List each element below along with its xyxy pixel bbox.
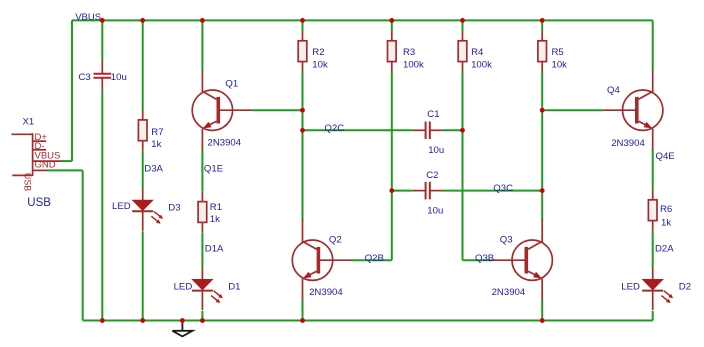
svg-text:2N3904: 2N3904 [492, 287, 526, 298]
wire R4 bottom wire [462, 71, 464, 130]
connector X1 body [12, 133, 61, 176]
svg-text:R7: R7 [151, 127, 163, 138]
wire R2 bottom wire [302, 71, 304, 110]
net label Q3C [493, 183, 513, 194]
resistor R7 [138, 110, 147, 150]
wire Q4 collector wire [652, 20, 654, 70]
value 10u of C1 [428, 145, 444, 156]
label D1 [228, 282, 240, 293]
label R3 [403, 47, 415, 58]
resistor R5 [538, 31, 547, 71]
svg-text:USB: USB [22, 173, 32, 192]
wire Q1 base net [252, 109, 302, 111]
resistor R1 [198, 192, 207, 232]
svg-text:D1A: D1A [205, 243, 224, 254]
svg-text:D2A: D2A [655, 243, 674, 254]
value 2N3904 of Q4 [611, 138, 645, 149]
label LED of D2 [621, 282, 640, 293]
svg-text:Q2B: Q2B [365, 253, 384, 264]
wire C3 bottom wire [101, 90, 103, 320]
label R6 [660, 204, 672, 215]
label C3 [78, 72, 90, 83]
label LED of D1 [174, 282, 193, 293]
LED D3 [132, 188, 163, 231]
wire net D2A [652, 230, 654, 267]
resistor R4 [458, 31, 467, 71]
label R4 [471, 47, 484, 58]
value 10u of C2 [427, 205, 443, 216]
wire R3 bottom wire [391, 71, 393, 191]
capacitor C2 [413, 182, 443, 200]
value 2N3904 of Q2 [309, 287, 343, 298]
label Q3 [500, 235, 513, 246]
junction top R7 [140, 18, 145, 23]
label D2 [679, 282, 691, 293]
wire GND bottom rail [83, 320, 653, 322]
svg-text:100k: 100k [403, 60, 424, 71]
junction top R3 [389, 18, 394, 23]
wire C2 left net [392, 190, 413, 192]
wire Q3 base net [463, 259, 493, 261]
wire R4 to Q3 base corner [462, 130, 464, 260]
label R1 [210, 202, 222, 213]
svg-text:1k: 1k [151, 139, 161, 150]
value 100k of R3 [403, 60, 424, 71]
wire Q2 emitter wire [302, 298, 304, 320]
svg-text:Q1: Q1 [225, 79, 238, 90]
pin label GND [35, 160, 56, 171]
wire net Q2C [303, 129, 413, 131]
svg-text:Q2: Q2 [329, 235, 342, 246]
pin label D+ [35, 132, 48, 143]
net label Q4E [656, 151, 675, 162]
transistor Q4 [603, 70, 663, 150]
junction bottom D1 [200, 318, 205, 323]
svg-text:Q4: Q4 [607, 85, 620, 96]
svg-text:R4: R4 [471, 47, 484, 58]
svg-text:10u: 10u [428, 145, 444, 156]
junction Q2C left [300, 128, 305, 133]
wire D1 cathode wire [201, 311, 203, 321]
junction Q3C right [540, 188, 545, 193]
junction bottom GND [180, 318, 185, 323]
svg-text:2N3904: 2N3904 [309, 287, 343, 298]
svg-text:2N3904: 2N3904 [208, 138, 242, 149]
svg-text:1k: 1k [210, 214, 220, 225]
svg-text:10u: 10u [427, 205, 443, 216]
svg-text:R3: R3 [403, 47, 415, 58]
svg-text:100k: 100k [471, 60, 492, 71]
label Q4 [607, 85, 620, 96]
junction bottom C3 [100, 318, 105, 323]
net label Q2C [324, 123, 344, 134]
pin label D- [35, 141, 45, 152]
transistor Q1 [192, 70, 252, 150]
junction bottom D3 [140, 318, 145, 323]
wire D2 cathode wire [652, 311, 654, 321]
wire R5 bottom wire [541, 71, 543, 110]
wire Q3 emitter wire [541, 298, 543, 320]
svg-text:Q1E: Q1E [204, 163, 223, 174]
svg-text:Q4E: Q4E [656, 151, 675, 162]
svg-text:C1: C1 [427, 109, 439, 120]
svg-text:R1: R1 [210, 202, 222, 213]
wire VBUS pin stub net [61, 160, 73, 162]
transistor Q3 [492, 220, 552, 300]
wire C1 right net [443, 129, 463, 131]
svg-text:GND: GND [35, 160, 56, 171]
wire R3 top wire [391, 20, 393, 31]
svg-text:D2: D2 [679, 282, 691, 293]
wire Q2 collector wire [302, 130, 304, 221]
junction top R5 [540, 18, 545, 23]
junction Q4 base [540, 108, 545, 113]
svg-text:1k: 1k [661, 218, 671, 229]
capacitor C1 [413, 122, 443, 140]
wire GND riser from X1 [82, 170, 84, 320]
wire Q2 base net [353, 259, 392, 261]
wire net D1A [201, 232, 203, 267]
svg-text:LED: LED [621, 282, 640, 293]
wire R7 top wire [142, 20, 144, 110]
svg-text:D3: D3 [168, 202, 180, 213]
resistor R3 [388, 31, 397, 71]
junction top C3 [100, 18, 105, 23]
wire Q3 collector wire [541, 191, 543, 221]
label Q2 [329, 235, 342, 246]
ground GND [172, 321, 192, 337]
label LED of D3 [112, 201, 131, 212]
wire C3 top wire [101, 20, 103, 61]
wire GND pin stub net [48, 169, 83, 171]
value 1k of R7 [151, 139, 161, 150]
wire R5 to Q3C [541, 110, 543, 190]
svg-text:Q2C: Q2C [324, 123, 344, 134]
junction top R2 [300, 18, 305, 23]
value 1k of R1 [210, 214, 220, 225]
svg-text:2N3904: 2N3904 [611, 138, 645, 149]
pin label VBUS [35, 150, 61, 161]
wire VBUS top rail [72, 19, 653, 21]
junction top Q1 [200, 18, 205, 23]
wire net Q3C [443, 190, 543, 192]
svg-text:LED: LED [112, 201, 131, 212]
net label Q3B [475, 253, 494, 264]
resistor R2 [298, 31, 307, 71]
net label Q2B [365, 253, 384, 264]
svg-text:10k: 10k [552, 60, 568, 71]
svg-text:R2: R2 [312, 47, 324, 58]
value 2N3904 of Q1 [208, 138, 242, 149]
junction Q2C right [460, 128, 465, 133]
wire Q1 collector wire [201, 20, 203, 70]
svg-text:10k: 10k [312, 60, 328, 71]
capacitor C3 [94, 61, 112, 90]
value USB of X1 [27, 197, 51, 209]
svg-text:10u: 10u [111, 72, 127, 83]
value 2N3904 of Q3 [492, 287, 526, 298]
wire R4 top wire [462, 20, 464, 31]
label R7 [151, 127, 163, 138]
value 10u of C3 [111, 72, 127, 83]
net label D2A [655, 243, 674, 254]
value 10k of R5 [552, 60, 568, 71]
junction Q1 base [300, 108, 305, 113]
value 100k of R4 [471, 60, 492, 71]
connector X1 rotated USB text [22, 173, 32, 192]
wire R2 top wire [302, 20, 304, 31]
wire net Q1E [201, 148, 203, 191]
svg-text:C2: C2 [426, 170, 438, 181]
svg-text:R6: R6 [660, 204, 672, 215]
label R5 [552, 47, 564, 58]
svg-text:D3A: D3A [144, 163, 163, 174]
wire R3 to Q2 base corner [391, 191, 393, 261]
wire net Q4E [652, 148, 654, 190]
net label D3A [144, 163, 163, 174]
resistor R6 [648, 190, 657, 230]
svg-text:VBUS: VBUS [75, 12, 101, 23]
wire VBUS riser from X1 [71, 20, 73, 161]
net label VBUS [75, 12, 101, 23]
LED D1 [192, 267, 223, 310]
junction top R4 [460, 18, 465, 23]
wire net D3A [142, 151, 144, 189]
transistor Q2 [292, 220, 352, 300]
svg-text:X1: X1 [23, 117, 35, 128]
label D3 [168, 202, 180, 213]
wire R2 to Q2C [302, 110, 304, 130]
svg-text:Q3B: Q3B [475, 253, 494, 264]
junction bottom Q2 [300, 318, 305, 323]
wire R5 top wire [541, 20, 543, 31]
svg-text:Q3C: Q3C [493, 183, 513, 194]
svg-text:C3: C3 [78, 72, 90, 83]
value 1k of R6 [661, 218, 671, 229]
net label Q1E [204, 163, 223, 174]
wire Q4 base net [542, 109, 603, 111]
wire D3 cathode wire [142, 231, 144, 320]
label C2 [426, 170, 438, 181]
net label D1A [205, 243, 224, 254]
svg-text:R5: R5 [552, 47, 564, 58]
value 10k of R2 [312, 60, 328, 71]
junction C2 left [389, 188, 394, 193]
LED D2 [642, 267, 673, 310]
label Q1 [225, 79, 238, 90]
svg-text:LED: LED [174, 282, 193, 293]
label X1 [23, 117, 35, 128]
svg-text:D1: D1 [228, 282, 240, 293]
junction bottom Q3 [540, 318, 545, 323]
svg-text:USB: USB [27, 197, 51, 209]
svg-text:Q3: Q3 [500, 235, 513, 246]
label R2 [312, 47, 324, 58]
label C1 [427, 109, 439, 120]
